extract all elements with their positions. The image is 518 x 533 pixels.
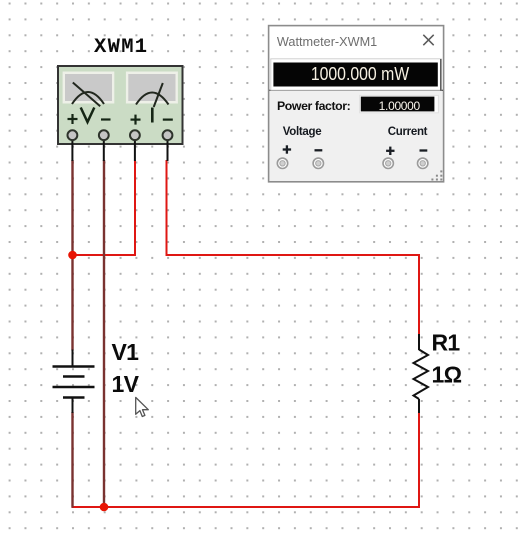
svg-text:1V: 1V [112,371,140,397]
wire V- pin down vertical [103,160,105,507]
wattmeter XWM1 body [58,66,183,144]
terminal pin 3 [130,130,140,161]
current pin labels +I- [131,108,173,125]
svg-text:XWM1: XWM1 [94,36,148,59]
voltage plus terminal radio [277,158,287,168]
svg-text:Power factor:: Power factor: [277,99,350,113]
wire bottom return horizontal [72,506,421,508]
wire I- pin down vertical [166,160,168,256]
wire V+ pin to battery vertical [71,160,73,351]
resize grip [431,170,442,180]
terminal pin 2 [99,130,109,161]
voltage minus mark [315,149,323,151]
junction node A [68,251,77,260]
wire I+ pin down vertical [134,160,136,256]
close button [423,35,433,45]
current minus mark [420,149,428,151]
svg-text:1Ω: 1Ω [432,362,462,388]
wire battery negative to bottom vertical [71,412,73,508]
current plus mark [386,147,394,155]
current plus terminal radio [383,158,393,168]
voltmeter meter face [63,72,115,107]
junction node B [100,503,109,512]
current minus terminal radio [418,158,428,168]
wire I- to resistor horizontal [166,254,421,256]
svg-text:Voltage: Voltage [283,126,322,138]
wire node A to I+ horizontal [72,254,137,256]
svg-text:1.00000: 1.00000 [379,99,421,113]
wire R1 bottom down vertical [418,412,420,508]
svg-text:R1: R1 [432,330,461,356]
voltage source V1 battery [53,350,95,414]
power factor field [360,95,439,113]
power display [271,59,441,91]
wire down to R1 top vertical [418,254,420,335]
terminal pin 4 [163,130,173,161]
voltage pin labels +V- [68,108,111,125]
svg-text:V1: V1 [112,339,140,365]
wattmeter panel window [269,26,444,182]
mouse cursor [136,397,149,416]
svg-text:1000.000 mW: 1000.000 mW [311,63,410,85]
voltage minus terminal radio [313,158,323,168]
svg-text:Current: Current [388,126,428,138]
svg-text:Wattmeter-XWM1: Wattmeter-XWM1 [277,35,377,49]
resistor R1 [414,334,429,413]
voltage plus mark [283,145,291,153]
ammeter meter face [126,72,178,108]
terminal pin 1 [68,130,78,161]
